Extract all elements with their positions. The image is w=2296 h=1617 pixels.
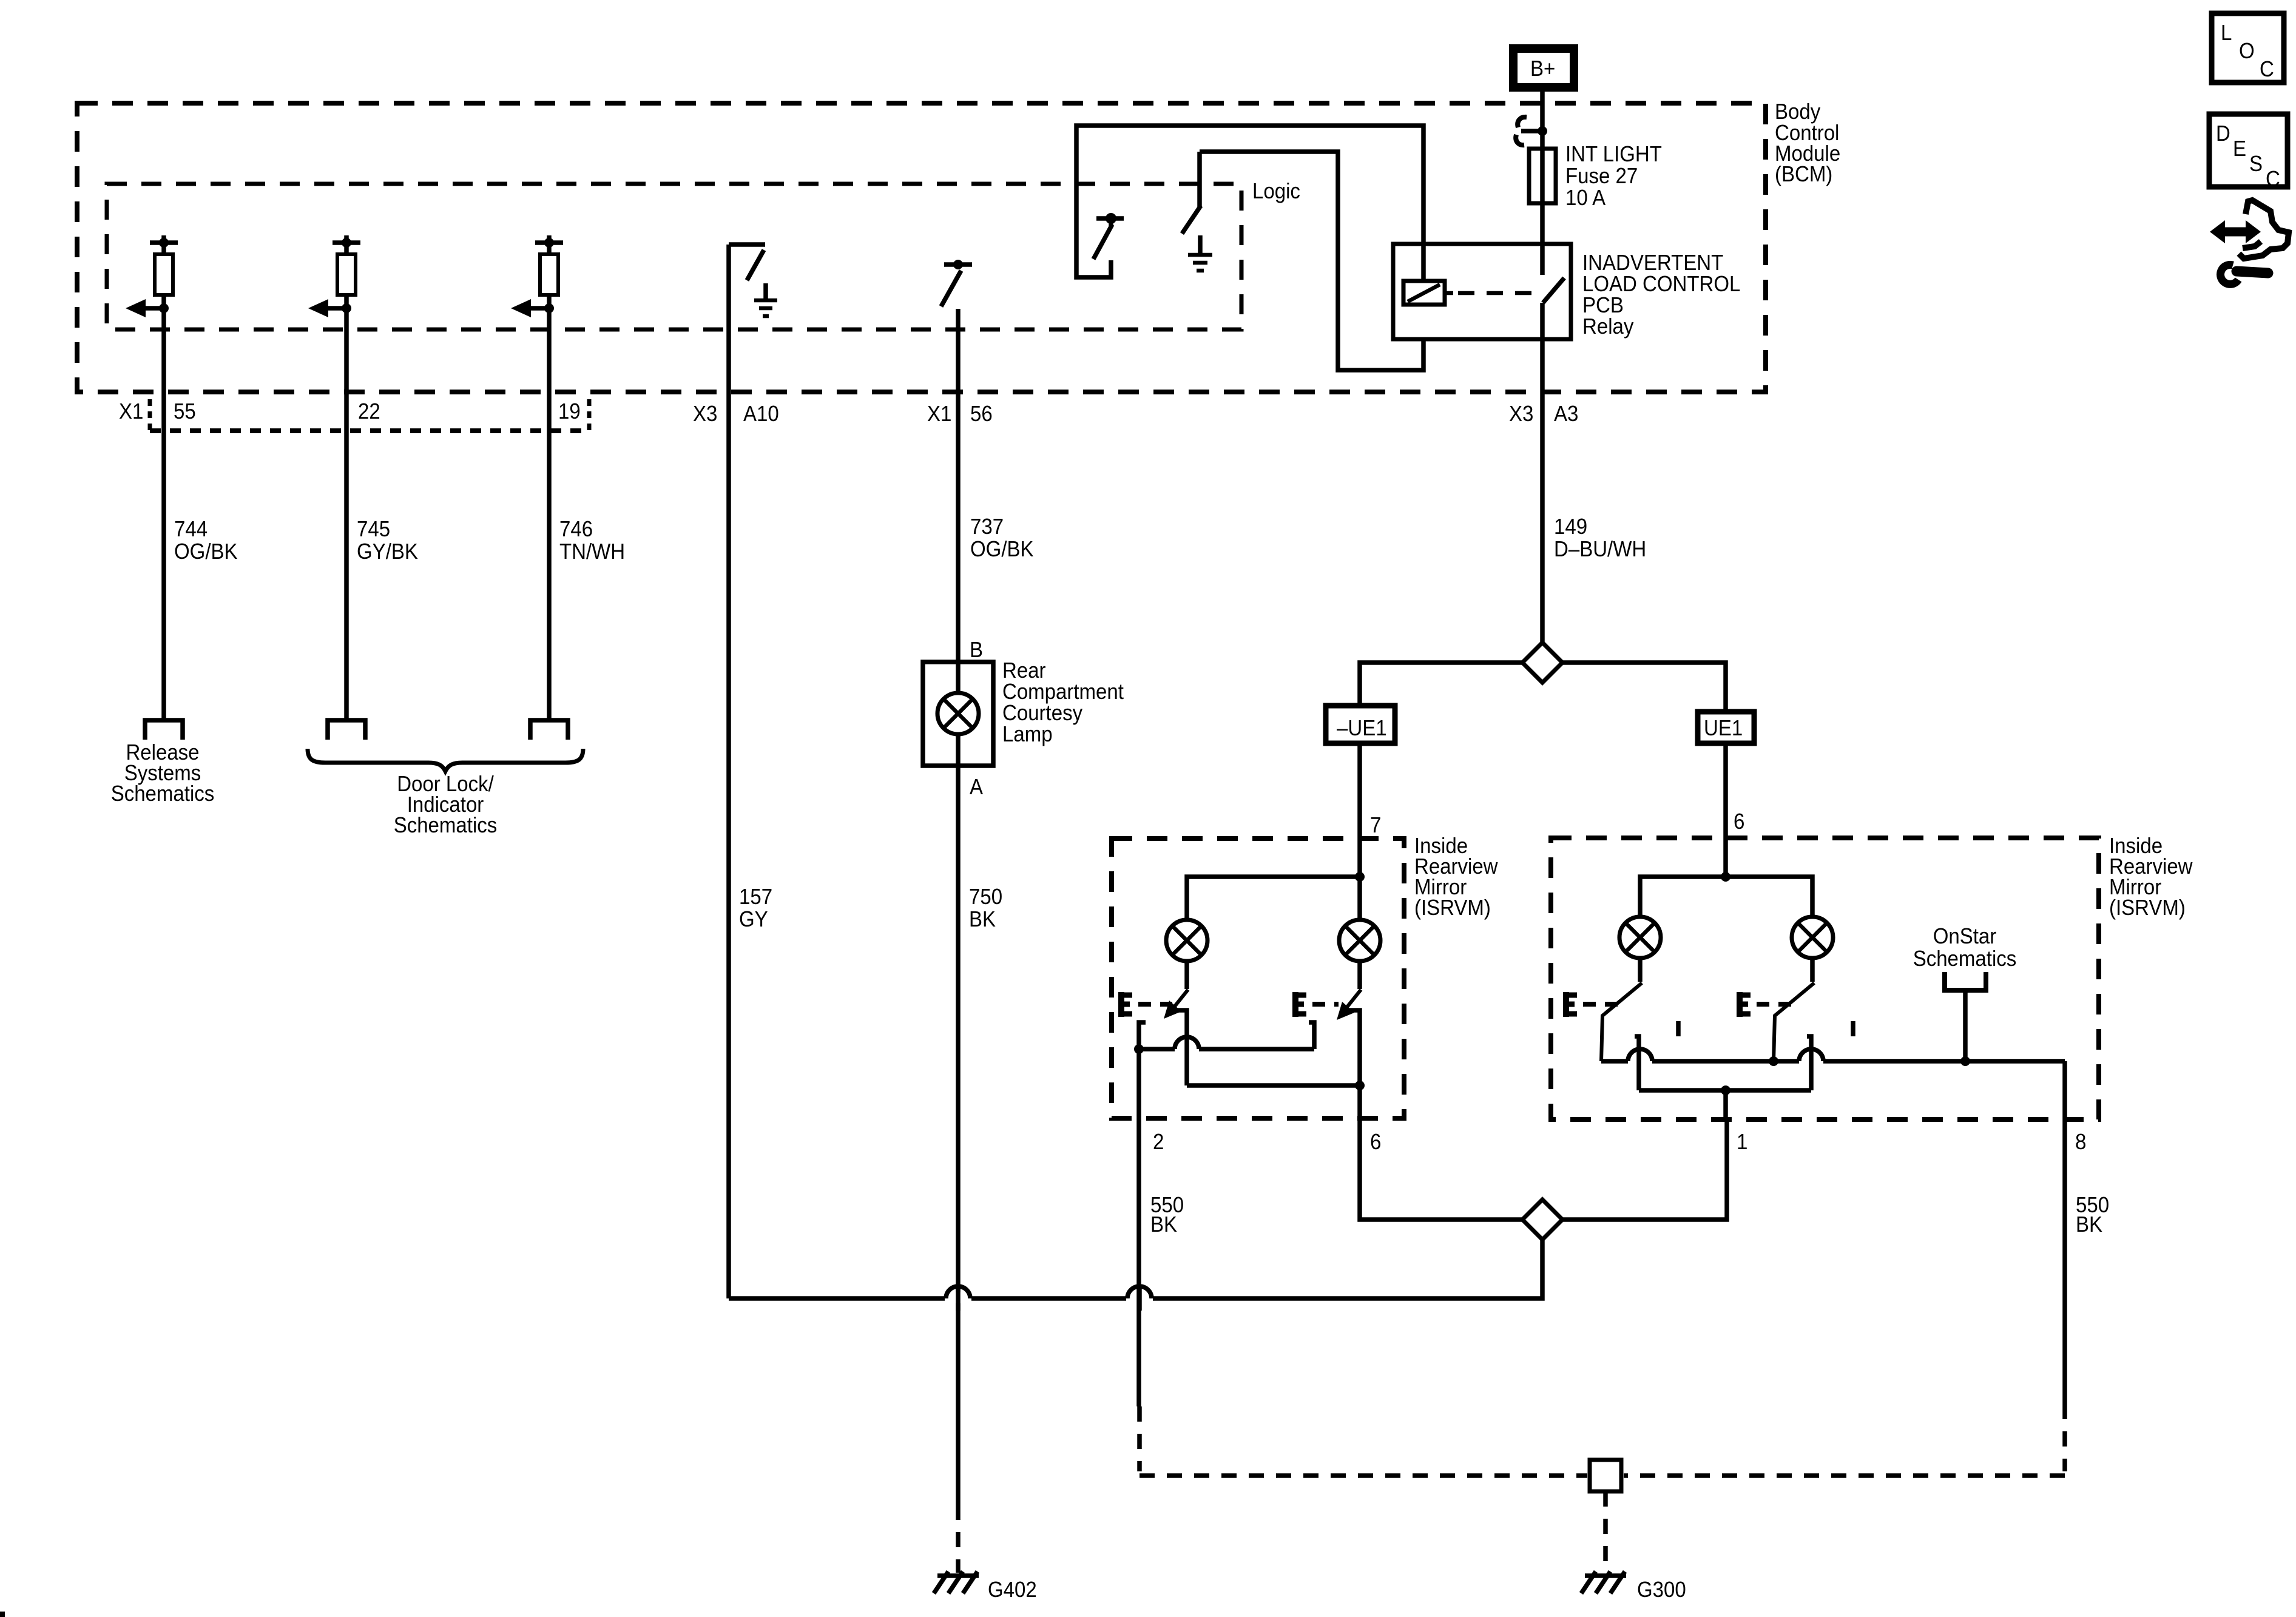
- wire 550 BK (left): [1139, 1118, 1184, 1406]
- wire -UE1 to ISRVM pin 7: [1357, 743, 1362, 839]
- INADVERTENT LOAD CONTROL PCB Relay box: [1393, 244, 1571, 339]
- left ISRVM pin 2 wire: [1136, 1049, 1141, 1118]
- wire 744 OG/BK: [164, 392, 238, 720]
- logic switch to ground: [1182, 152, 1201, 234]
- wire pin6 to lower splice: [1360, 1118, 1522, 1220]
- svg-text:B+: B+: [1530, 56, 1555, 81]
- svg-text:Schematics: Schematics: [1913, 946, 2017, 971]
- svg-text:56: 56: [970, 401, 993, 426]
- in-line connector -UE1: [1326, 706, 1395, 743]
- rear compartment lid switch (X1 56): [941, 260, 972, 306]
- Door Lock/Indicator Schematics label: [394, 771, 498, 837]
- left ISRVM wiring: pin7 node: [1187, 839, 1365, 920]
- svg-text:L: L: [2221, 20, 2232, 45]
- svg-text:E: E: [2233, 136, 2246, 161]
- svg-text:8: 8: [2075, 1129, 2086, 1154]
- left ISRVM switch 2 (E pushbutton): [1309, 961, 1361, 1085]
- right ISRVM lower bus 2: [1639, 1085, 1811, 1095]
- Body Control Module (BCM) dashed box: [77, 103, 1766, 392]
- svg-text:Schematics: Schematics: [111, 781, 215, 806]
- logic switch ground symbol: [1188, 235, 1212, 271]
- wire UE1 to ISRVM pin 6: [1723, 743, 1728, 838]
- left ISRVM lamp 1: [1166, 920, 1207, 961]
- svg-text:Logic: Logic: [1252, 178, 1300, 203]
- OnStar connector stub: [1913, 923, 2017, 1066]
- wire 550 BK (right): [2065, 1119, 2109, 1404]
- svg-text:1: 1: [1737, 1129, 1747, 1154]
- right ISRVM label: [2109, 833, 2193, 920]
- svg-text:A: A: [970, 774, 983, 799]
- svg-text:G300: G300: [1637, 1577, 1686, 1602]
- svg-text:TN/WH: TN/WH: [559, 539, 625, 564]
- svg-text:(BCM): (BCM): [1775, 161, 1832, 186]
- wire 746 TN/WH: [549, 392, 625, 720]
- wire from logic switch to relay coil return: [1200, 152, 1423, 370]
- Inside Rearview Mirror (ISRVM) left dashed box: [1112, 839, 1404, 1118]
- svg-text:BK: BK: [1150, 1212, 1177, 1237]
- wire 745 GY/BK: [346, 392, 418, 720]
- wire 149 D-BU/WH: [1554, 514, 1646, 561]
- G300 in-line connector square: [1590, 1460, 1621, 1491]
- svg-text:D: D: [2216, 121, 2230, 146]
- right ISRVM lower bus 1 with hops: [1601, 1049, 2065, 1066]
- fusible link squiggle at B+ junction: [1516, 117, 1547, 145]
- svg-text:X1: X1: [119, 399, 143, 424]
- relay coil to contact dashed link: [1458, 291, 1537, 295]
- resistor input 22: [308, 235, 360, 392]
- hop of ground bus over pin2 wire: [1126, 1286, 1153, 1311]
- svg-text:6: 6: [1734, 809, 1744, 834]
- svg-text:744: 744: [174, 516, 208, 541]
- svg-text:GY/BK: GY/BK: [357, 539, 418, 564]
- svg-text:2: 2: [1153, 1129, 1164, 1154]
- svg-text:22: 22: [358, 399, 380, 424]
- svg-text:X3: X3: [693, 401, 717, 426]
- svg-text:745: 745: [357, 516, 390, 541]
- wire lower splice to pin 1: [1562, 1119, 1727, 1220]
- svg-text:D–BU/WH: D–BU/WH: [1554, 536, 1646, 561]
- svg-text:A10: A10: [743, 401, 779, 426]
- svg-text:746: 746: [559, 516, 593, 541]
- E label + linkage right switch 1: [1564, 992, 1619, 1017]
- relay coil: [1403, 281, 1453, 305]
- hop of ground bus over 750 BK wire: [945, 1286, 971, 1311]
- left ISRVM lower bus with hop: [1134, 1037, 1365, 1090]
- svg-text:B: B: [970, 637, 983, 662]
- wire relay contact output down to splice: [1540, 303, 1545, 644]
- svg-text:BK: BK: [2076, 1212, 2102, 1237]
- svg-text:INT LIGHT: INT LIGHT: [1565, 141, 1662, 166]
- svg-text:6: 6: [1370, 1129, 1381, 1154]
- wire 750 BK down to G402: [958, 766, 1002, 1505]
- trunk lid ajar switch to ground (A10): [729, 245, 765, 280]
- svg-text:Fuse 27: Fuse 27: [1565, 163, 1638, 188]
- svg-text:GY: GY: [739, 906, 768, 931]
- svg-text:G402: G402: [988, 1577, 1037, 1602]
- INT LIGHT fuse: [1529, 141, 1662, 210]
- Rear Compartment Courtesy Lamp: [923, 637, 1124, 799]
- E label + linkage switch 1: [1119, 992, 1172, 1017]
- splice diamond (upper): [1522, 643, 1562, 683]
- service/repair icon: [2210, 200, 2289, 284]
- wire splice to UE1: [1562, 663, 1726, 712]
- left ISRVM pin 6 wire: [1357, 1085, 1362, 1118]
- right ISRVM pin 6 node: [1640, 838, 1812, 917]
- contact tick right box 2: [1851, 1021, 1855, 1036]
- resistor input 19: [511, 235, 563, 392]
- resistor input 55 (sense resistor + arrow): [126, 235, 178, 392]
- Logic inner dashed box: [107, 184, 1241, 329]
- dashed run from pin 8 wire to G300 bus: [1624, 1404, 2065, 1476]
- main B+ feed wire through fuse to relay contact: [1540, 87, 1545, 275]
- svg-text:10 A: 10 A: [1565, 185, 1606, 210]
- DESC legend box: [2209, 114, 2288, 191]
- relay labels: [1582, 250, 1740, 339]
- svg-text:OG/BK: OG/BK: [174, 539, 238, 564]
- fork under wire 745: [328, 720, 365, 740]
- Release Systems Schematics label: [111, 740, 215, 806]
- svg-text:C: C: [2266, 166, 2280, 191]
- connector label X3 A3: [1509, 401, 1578, 426]
- brace for Door Lock/Indicator Schematics: [308, 749, 583, 771]
- ground G402: [934, 1571, 1037, 1602]
- svg-text:S: S: [2249, 151, 2263, 176]
- right ISRVM switch 1: [1601, 958, 1642, 1090]
- svg-text:X1: X1: [927, 401, 951, 426]
- svg-text:BK: BK: [969, 906, 996, 931]
- ground G300: [1581, 1571, 1686, 1602]
- right ISRVM switch 2: [1774, 958, 1814, 1090]
- svg-text:OnStar: OnStar: [1933, 923, 1997, 948]
- right ISRVM lamp 1: [1619, 917, 1661, 958]
- fork to Release Systems Schematics: [145, 720, 183, 740]
- svg-text:C: C: [2260, 56, 2274, 81]
- right ISRVM lamp 2: [1792, 917, 1833, 958]
- svg-text:19: 19: [558, 399, 581, 424]
- svg-text:750: 750: [969, 884, 1002, 909]
- stray page mark bottom-left: [0, 1612, 5, 1617]
- svg-text:737: 737: [970, 514, 1004, 539]
- wire 737 OG/BK: [958, 309, 1034, 662]
- wire splice to -UE1: [1360, 663, 1522, 706]
- ground symbol at A10 switch: [754, 283, 777, 316]
- dashed continuation to G402: [956, 1505, 961, 1573]
- svg-text:UE1: UE1: [1704, 715, 1743, 740]
- contact tick right box 1: [1676, 1021, 1681, 1036]
- splice diamond (lower): [1522, 1200, 1562, 1240]
- E label + linkage switch 2: [1294, 992, 1339, 1017]
- svg-text:7: 7: [1370, 812, 1381, 837]
- connector label X3 A10: [693, 401, 779, 426]
- left ISRVM lamp 2: [1339, 920, 1380, 961]
- connector X1 band (pins 55 22 19): [119, 399, 589, 431]
- BCM internal switch feeding relay coil: [1076, 126, 1423, 281]
- svg-text:157: 157: [739, 884, 772, 909]
- wire lower splice down to ground bus: [729, 1240, 1542, 1298]
- right ISRVM pin 8 wire: [2062, 1061, 2067, 1119]
- wire 157 GY: [729, 245, 772, 1298]
- left ISRVM switch 1 (E pushbutton): [1139, 961, 1188, 1085]
- in-line connector UE1: [1698, 712, 1754, 743]
- connector label X1 56: [927, 401, 993, 426]
- svg-text:149: 149: [1554, 514, 1587, 539]
- svg-text:Lamp: Lamp: [1002, 721, 1053, 746]
- left ISRVM label: [1414, 833, 1498, 920]
- B+ battery feed box: [1513, 49, 1574, 87]
- svg-text:55: 55: [174, 399, 196, 424]
- LOC legend box: [2212, 13, 2284, 83]
- dashed run from pin 2 wire to G300 bus: [1140, 1406, 1587, 1476]
- right ISRVM pin 1 wire: [1723, 1090, 1728, 1119]
- svg-text:(ISRVM): (ISRVM): [2109, 895, 2186, 920]
- svg-text:(ISRVM): (ISRVM): [1414, 895, 1491, 920]
- Inside Rearview Mirror (ISRVM) right dashed box: [1551, 838, 2099, 1119]
- svg-text:X3: X3: [1509, 401, 1533, 426]
- svg-text:–UE1: –UE1: [1337, 715, 1387, 740]
- svg-text:O: O: [2239, 38, 2255, 63]
- svg-text:OG/BK: OG/BK: [970, 536, 1034, 561]
- E label + linkage right switch 2: [1738, 992, 1791, 1017]
- svg-text:Relay: Relay: [1582, 314, 1633, 339]
- dashed stem to G300: [1603, 1491, 1608, 1573]
- fork under wire 746: [530, 720, 568, 740]
- svg-text:Schematics: Schematics: [394, 812, 498, 837]
- BCM label: [1775, 99, 1840, 186]
- svg-text:A3: A3: [1554, 401, 1578, 426]
- relay contact switch: [1543, 278, 1564, 303]
